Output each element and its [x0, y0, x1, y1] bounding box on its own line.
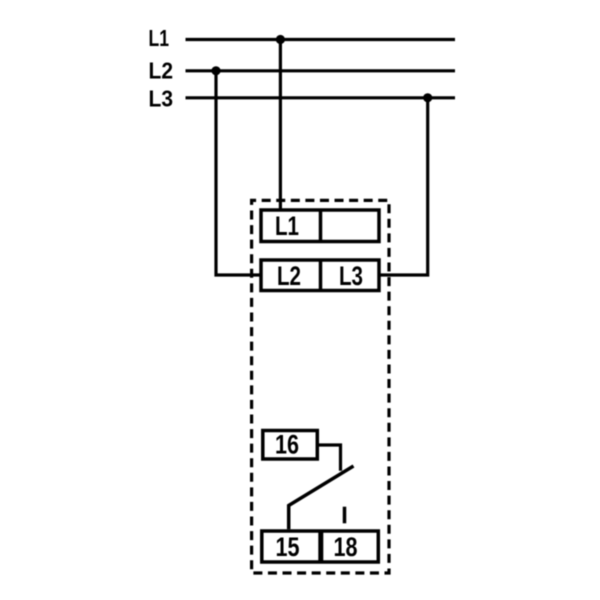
terminal block L1 (with empty cell): [261, 210, 379, 242]
relay contact blade (switch): [289, 466, 354, 529]
svg-text:L1: L1: [149, 25, 170, 51]
svg-text:15: 15: [276, 532, 300, 562]
wire L3 bus: [186, 96, 456, 99]
svg-text:L2: L2: [149, 58, 174, 84]
svg-text:L2: L2: [277, 261, 301, 291]
terminal 16 box: [263, 430, 318, 460]
svg-text:L3: L3: [339, 261, 363, 291]
terminal block L2 / L3: [261, 260, 379, 291]
junction dot on L2: [211, 66, 220, 75]
terminal block 15 / 18: [262, 531, 379, 562]
wire from terminal 16 to contact: [319, 445, 341, 471]
svg-text:L1: L1: [275, 211, 299, 241]
terminal 18 stub wire: [343, 507, 347, 524]
junction dot on L1: [276, 35, 285, 44]
svg-text:L3: L3: [149, 86, 174, 112]
svg-text:18: 18: [334, 532, 358, 562]
wire from L1 junction down to terminal L1: [279, 40, 282, 211]
svg-text:16: 16: [275, 430, 299, 460]
wire from L2 junction down and right to terminal L2: [216, 71, 261, 275]
wire L2 bus: [186, 69, 456, 72]
relay device dashed outline: [252, 200, 389, 573]
wire L1 bus: [186, 38, 456, 41]
junction dot on L3: [423, 93, 432, 102]
wire from L3 junction down and left to terminal L3: [380, 98, 428, 275]
